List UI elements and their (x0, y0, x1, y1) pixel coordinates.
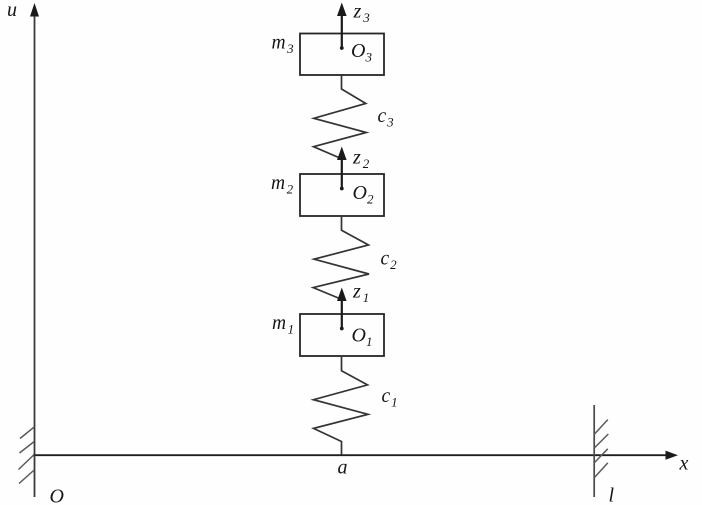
svg-text:O1: O1 (352, 325, 373, 350)
right wall (593, 405, 595, 497)
center dot O3 (340, 46, 344, 50)
left wall hatching (19, 427, 35, 484)
svg-text:c3: c3 (378, 106, 395, 130)
arrow z2 (337, 147, 347, 189)
arrow z1 (337, 288, 347, 329)
center dot O2 (340, 187, 344, 191)
u-axis arrowhead (30, 3, 39, 17)
svg-text:O: O (50, 486, 64, 505)
svg-text:c2: c2 (381, 249, 398, 273)
svg-text:l: l (609, 485, 615, 505)
svg-text:m3: m3 (272, 33, 295, 57)
mass m2 (300, 174, 384, 216)
svg-text:O2: O2 (353, 182, 374, 207)
u-axis (34, 9, 36, 497)
spring c2 (313, 216, 369, 300)
svg-text:z3: z3 (353, 1, 371, 26)
mass m3 (300, 34, 384, 76)
svg-text:u: u (7, 0, 17, 21)
right wall hatching (594, 420, 608, 478)
svg-text:O3: O3 (351, 40, 372, 65)
svg-text:x: x (679, 453, 689, 475)
x-axis (33, 454, 668, 456)
spring c1 (314, 356, 369, 455)
spring c3 (314, 76, 367, 159)
arrow z3 (337, 3, 347, 48)
svg-text:z2: z2 (352, 147, 370, 172)
svg-text:z1: z1 (352, 281, 369, 306)
mass m1 (300, 314, 384, 356)
svg-text:m1: m1 (272, 313, 294, 337)
x-axis arrowhead (666, 451, 679, 460)
center dot O1 (340, 327, 344, 331)
svg-text:a: a (338, 457, 348, 479)
svg-text:c1: c1 (382, 386, 398, 410)
svg-text:m2: m2 (271, 173, 294, 197)
